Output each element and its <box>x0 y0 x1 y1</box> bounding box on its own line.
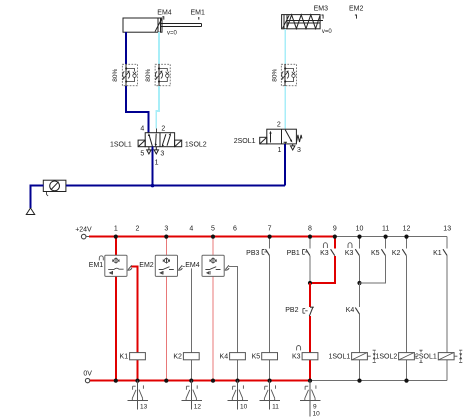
junction 0V rail / col6 <box>235 379 239 383</box>
junction 0V rail / col4 <box>189 379 193 383</box>
contact cross-reference marker K3 (9,10) <box>300 381 321 418</box>
contact cross-reference marker K4 (10) <box>228 381 249 411</box>
svg-text:13: 13 <box>443 226 451 233</box>
wire col1 EM1 to 0V (conducting) <box>115 276 117 380</box>
junction +24V rail / col12 <box>404 235 408 239</box>
svg-text:1: 1 <box>277 147 281 154</box>
wire col3 rail to EM2 <box>165 237 167 256</box>
junction 0V rail / col8 <box>308 379 312 383</box>
svg-text:5: 5 <box>140 151 144 158</box>
svg-text:9: 9 <box>333 226 337 233</box>
cylinder 2A (single-acting spring return, retracted) <box>282 15 323 29</box>
relay coil K5 <box>252 353 278 361</box>
exhaust triangles port5 and port3 <box>147 147 151 154</box>
right position arrows <box>162 134 166 145</box>
svg-text:2SOL1: 2SOL1 <box>415 354 437 361</box>
wire col3 EM2 to 0V <box>165 276 167 380</box>
svg-text:1SOL1: 1SOL1 <box>110 141 132 148</box>
relay contact K3 col9 (NO, actuated) <box>320 243 335 258</box>
junction 0V rail / col10 <box>357 379 361 383</box>
port 2 stub (5/2 valve) <box>155 129 157 133</box>
wire col10 node B to K4 contact <box>359 283 361 307</box>
junction 0V rail / col2 <box>135 379 139 383</box>
relay contact K3 col10 (NO, actuated) <box>345 243 360 258</box>
wire col2 K1 coil to 0V (conducting) <box>136 360 138 381</box>
valve link symbol 1SOL2 <box>419 350 422 362</box>
svg-text:K5: K5 <box>371 250 380 257</box>
label EM4 (cylinder 1 position mark) <box>157 9 172 19</box>
wire 3/2 port1 down to supply line (navy) <box>284 144 286 186</box>
svg-text:80%: 80% <box>271 68 278 81</box>
compressed air source <box>26 208 34 215</box>
left box arrow 1->2 <box>270 133 272 143</box>
svg-text:EM2: EM2 <box>349 6 364 13</box>
svg-text:EM1: EM1 <box>89 262 104 269</box>
svg-text:1: 1 <box>155 159 159 166</box>
junction 0V rail / col1 <box>114 379 118 383</box>
junction +24V rail / col1 <box>114 235 118 239</box>
svg-text:2SOL1: 2SOL1 <box>234 138 256 145</box>
push button PB1 (NO) <box>287 249 310 257</box>
svg-text:PB1: PB1 <box>287 250 300 257</box>
wire col7 K5 coil to 0V <box>269 360 271 381</box>
wire col10 K4 contact to 1SOL1 <box>359 314 361 352</box>
0V rail (conducting) <box>90 380 310 382</box>
svg-text:10: 10 <box>313 410 321 417</box>
exhaust triangle port 3 <box>291 144 295 150</box>
wire flow valve 1V2 to 5/2 valve port 2 (cyan) <box>156 86 159 129</box>
magnet symbol EM2 <box>178 265 182 270</box>
wire col12 rail to K2 contact <box>406 237 408 249</box>
junction 0V rail / col5 <box>211 379 215 383</box>
wire col5 EM4 to 0V <box>212 276 214 380</box>
svg-text:6: 6 <box>233 226 237 233</box>
wire col11 K5 contact to node B <box>360 256 386 283</box>
wire col8 PB1 to node A <box>309 256 311 283</box>
contact cross-reference marker K2 (12) <box>181 381 202 411</box>
+24V rail (right, not conducting) <box>335 236 447 238</box>
svg-text:PB2: PB2 <box>285 307 298 314</box>
cylinder 1A (double-acting, extended) <box>123 18 202 32</box>
svg-text:11: 11 <box>272 404 279 411</box>
pilot solenoid boxes <box>138 140 145 147</box>
svg-text:K1: K1 <box>433 250 442 257</box>
valve 2V (3/2-way solenoid, spring return) <box>260 129 302 150</box>
svg-text:7: 7 <box>268 226 272 233</box>
svg-text:K3: K3 <box>320 250 329 257</box>
svg-text:K1: K1 <box>120 354 129 361</box>
wire col6 EM4 output to K4 coil <box>229 267 238 353</box>
return spring <box>287 15 320 29</box>
junction supply line / 5-2 valve <box>151 184 155 188</box>
relay coil K2 <box>173 353 199 361</box>
wire col12 1SOL2 to 0V <box>406 360 408 381</box>
svg-text:80%: 80% <box>112 68 119 81</box>
left position arrows 1->4, 2->3 <box>149 135 152 146</box>
relay contact K1 col13 (NO) <box>433 249 447 257</box>
wire flow valve 1V1 to 5/2 valve port 4 (navy) <box>126 86 149 133</box>
flow control valve 1V2 <box>155 64 170 86</box>
svg-text:12: 12 <box>403 226 411 233</box>
wire col8 PB2 to K3 coil (conducting) <box>309 316 311 353</box>
svg-text:PB3: PB3 <box>246 250 259 257</box>
wire col13 K1 contact to 2SOL1 <box>446 256 448 353</box>
wire col5 rail to EM4 <box>212 237 214 256</box>
label EM4 (switch) with white background <box>185 261 200 268</box>
svg-text:11: 11 <box>382 226 389 233</box>
wire col10 1SOL1 to 0V <box>359 360 361 381</box>
wire col9 K3 contact to node A (conducting) <box>310 256 335 283</box>
push button PB2 (NC) <box>285 307 314 316</box>
svg-text:13: 13 <box>140 404 148 411</box>
junction 0V rail / col7 <box>268 379 272 383</box>
wire col7 PB3 to K5 coil <box>269 256 271 353</box>
solenoid 1SOL1 <box>329 350 376 362</box>
flow control valve 1V1 <box>122 64 137 86</box>
svg-text:2: 2 <box>277 121 281 128</box>
svg-text:5: 5 <box>211 226 215 233</box>
valve 1V (5/2-way double solenoid) <box>138 133 182 154</box>
flow control valve 2V1 <box>281 64 296 86</box>
wire col10 rail to K3 contact <box>359 237 361 249</box>
svg-text:1: 1 <box>114 226 118 233</box>
junction +24V rail / col3 <box>164 235 168 239</box>
svg-text:1SOL1: 1SOL1 <box>329 354 351 361</box>
junction +24V rail / col10 <box>357 235 361 239</box>
column numbers 1-13 <box>114 226 451 233</box>
svg-text:3: 3 <box>164 226 168 233</box>
junction dots on +24V rail <box>114 235 409 239</box>
svg-text:EM1: EM1 <box>190 9 205 16</box>
svg-text:3: 3 <box>160 151 164 158</box>
svg-text:1SOL2: 1SOL2 <box>376 354 398 361</box>
svg-text:4: 4 <box>189 226 193 233</box>
svg-text:10: 10 <box>356 226 364 233</box>
svg-text:EM4: EM4 <box>185 262 200 269</box>
+24V rail (conducting) <box>86 236 90 238</box>
wire col6 K4 coil to 0V <box>237 360 239 381</box>
push button PB3 (NO) <box>246 249 269 257</box>
svg-text:0V: 0V <box>83 370 92 377</box>
svg-text:K2: K2 <box>392 250 401 257</box>
actuated mark EM1 <box>99 256 103 261</box>
junction dots on 0V rail <box>114 379 409 383</box>
label EM3 (cylinder 2 position mark) <box>314 6 329 19</box>
svg-text:K5: K5 <box>252 354 261 361</box>
wire col7 rail to PB3 <box>269 237 271 249</box>
svg-text:2: 2 <box>161 125 165 132</box>
right box passage 2->3 <box>285 130 291 141</box>
air service unit <box>43 180 66 196</box>
relay contact K4 col10 (NO) <box>346 307 360 314</box>
proximity switch EM1 (closed) <box>89 255 132 276</box>
relay contact K5 col11 (NO) <box>371 249 386 257</box>
0V terminal <box>83 370 92 382</box>
wire col1 rail to EM1 (conducting) <box>115 237 117 256</box>
0V rail (right, not conducting) <box>310 380 447 382</box>
wire col12 K2 contact to 1SOL2 <box>406 256 408 353</box>
wire col13 2SOL1 to 0V <box>446 360 448 381</box>
svg-text:3: 3 <box>297 147 301 154</box>
label EM1 (cylinder 1 position mark) <box>190 9 205 19</box>
wire 5/2 port1 down to supply line (navy) <box>152 147 154 186</box>
wire col4 K2 coil to 0V <box>190 360 192 381</box>
wire cyl1 left port to flow valve 1V1 (navy) <box>125 32 127 64</box>
wire cyl2 port to flow valve 2V1 (cyan) <box>284 29 286 64</box>
wire col8 node A to PB2 (conducting) <box>309 283 311 307</box>
relay contact K2 col12 (NO) <box>392 249 407 257</box>
junction +24V rail / col5 <box>211 235 215 239</box>
svg-text:EM3: EM3 <box>314 6 329 13</box>
blocked port 1 <box>284 142 287 144</box>
svg-text:4: 4 <box>140 125 144 132</box>
junction +24V rail / col8 <box>308 235 312 239</box>
wire flow valve 2V1 to 3/2 valve port 2 (cyan) <box>284 86 286 129</box>
svg-text:v=0: v=0 <box>167 30 178 36</box>
svg-text:1SOL2: 1SOL2 <box>185 141 207 148</box>
svg-text:12: 12 <box>194 404 202 411</box>
wire col9 rail to K3 contact (conducting) <box>334 237 336 249</box>
label EM2 (cylinder 2 position mark) <box>349 6 364 19</box>
wire cyl1 right port to flow valve 1V2 (cyan) <box>158 32 160 64</box>
svg-text:8: 8 <box>308 226 312 233</box>
junction 0V rail / col12 <box>404 379 408 383</box>
wire col8 rail to PB1 <box>309 237 311 249</box>
solenoid box <box>260 137 267 144</box>
svg-text:K4: K4 <box>220 354 229 361</box>
svg-text:EM4: EM4 <box>157 9 172 16</box>
relay coil K3 (energized) <box>292 346 318 361</box>
magnet symbol EM1 <box>128 265 132 270</box>
wire col2 EM1 output to K1 coil (conducting) <box>131 267 138 353</box>
supply line (navy) <box>66 185 285 187</box>
svg-text:K3: K3 <box>345 250 354 257</box>
svg-text:EM2: EM2 <box>139 262 154 269</box>
svg-text:+24V: +24V <box>75 226 92 233</box>
svg-text:v=0: v=0 <box>322 29 333 35</box>
relay coil K4 <box>220 353 246 361</box>
valve link symbol 1SOL1 <box>373 350 376 362</box>
contact cross-reference marker K5 (11) <box>260 381 281 411</box>
svg-text:K4: K4 <box>346 307 355 314</box>
solenoid 1SOL2 <box>376 350 423 362</box>
svg-text:10: 10 <box>240 404 248 411</box>
wire col8 K3 coil to 0V (conducting) <box>309 360 311 381</box>
wire col11 rail to K5 contact <box>385 237 387 249</box>
wire air source to service unit (navy) <box>31 186 44 208</box>
svg-text:K3: K3 <box>292 354 301 361</box>
junction +24V rail / col11 <box>384 235 388 239</box>
relay coil K1 <box>120 353 146 361</box>
proximity switch EM4 (open) <box>202 255 229 276</box>
valve link symbol 2SOL1 <box>459 350 462 362</box>
wire col4 EM2 output to K2 coil <box>182 267 191 353</box>
svg-text:2: 2 <box>136 226 140 233</box>
junction 0V rail / col3 <box>164 379 168 383</box>
node B junction <box>357 281 361 285</box>
magnet symbol EM4 <box>225 265 229 270</box>
wire col13 rail to K1 contact <box>446 237 448 249</box>
junction +24V rail / col9 <box>333 235 337 239</box>
+24V terminal <box>75 226 92 239</box>
svg-text:K2: K2 <box>173 354 182 361</box>
wire col10 K3 contact to node B <box>359 256 361 283</box>
junction +24V rail / col7 <box>268 235 272 239</box>
node A junction <box>308 281 312 285</box>
svg-text:80%: 80% <box>145 68 152 81</box>
contact cross-reference marker K1 (13) <box>128 381 149 411</box>
proximity switch EM2 (open) <box>139 255 182 276</box>
solenoid 2SOL1 <box>415 350 462 362</box>
spring right <box>296 135 302 143</box>
